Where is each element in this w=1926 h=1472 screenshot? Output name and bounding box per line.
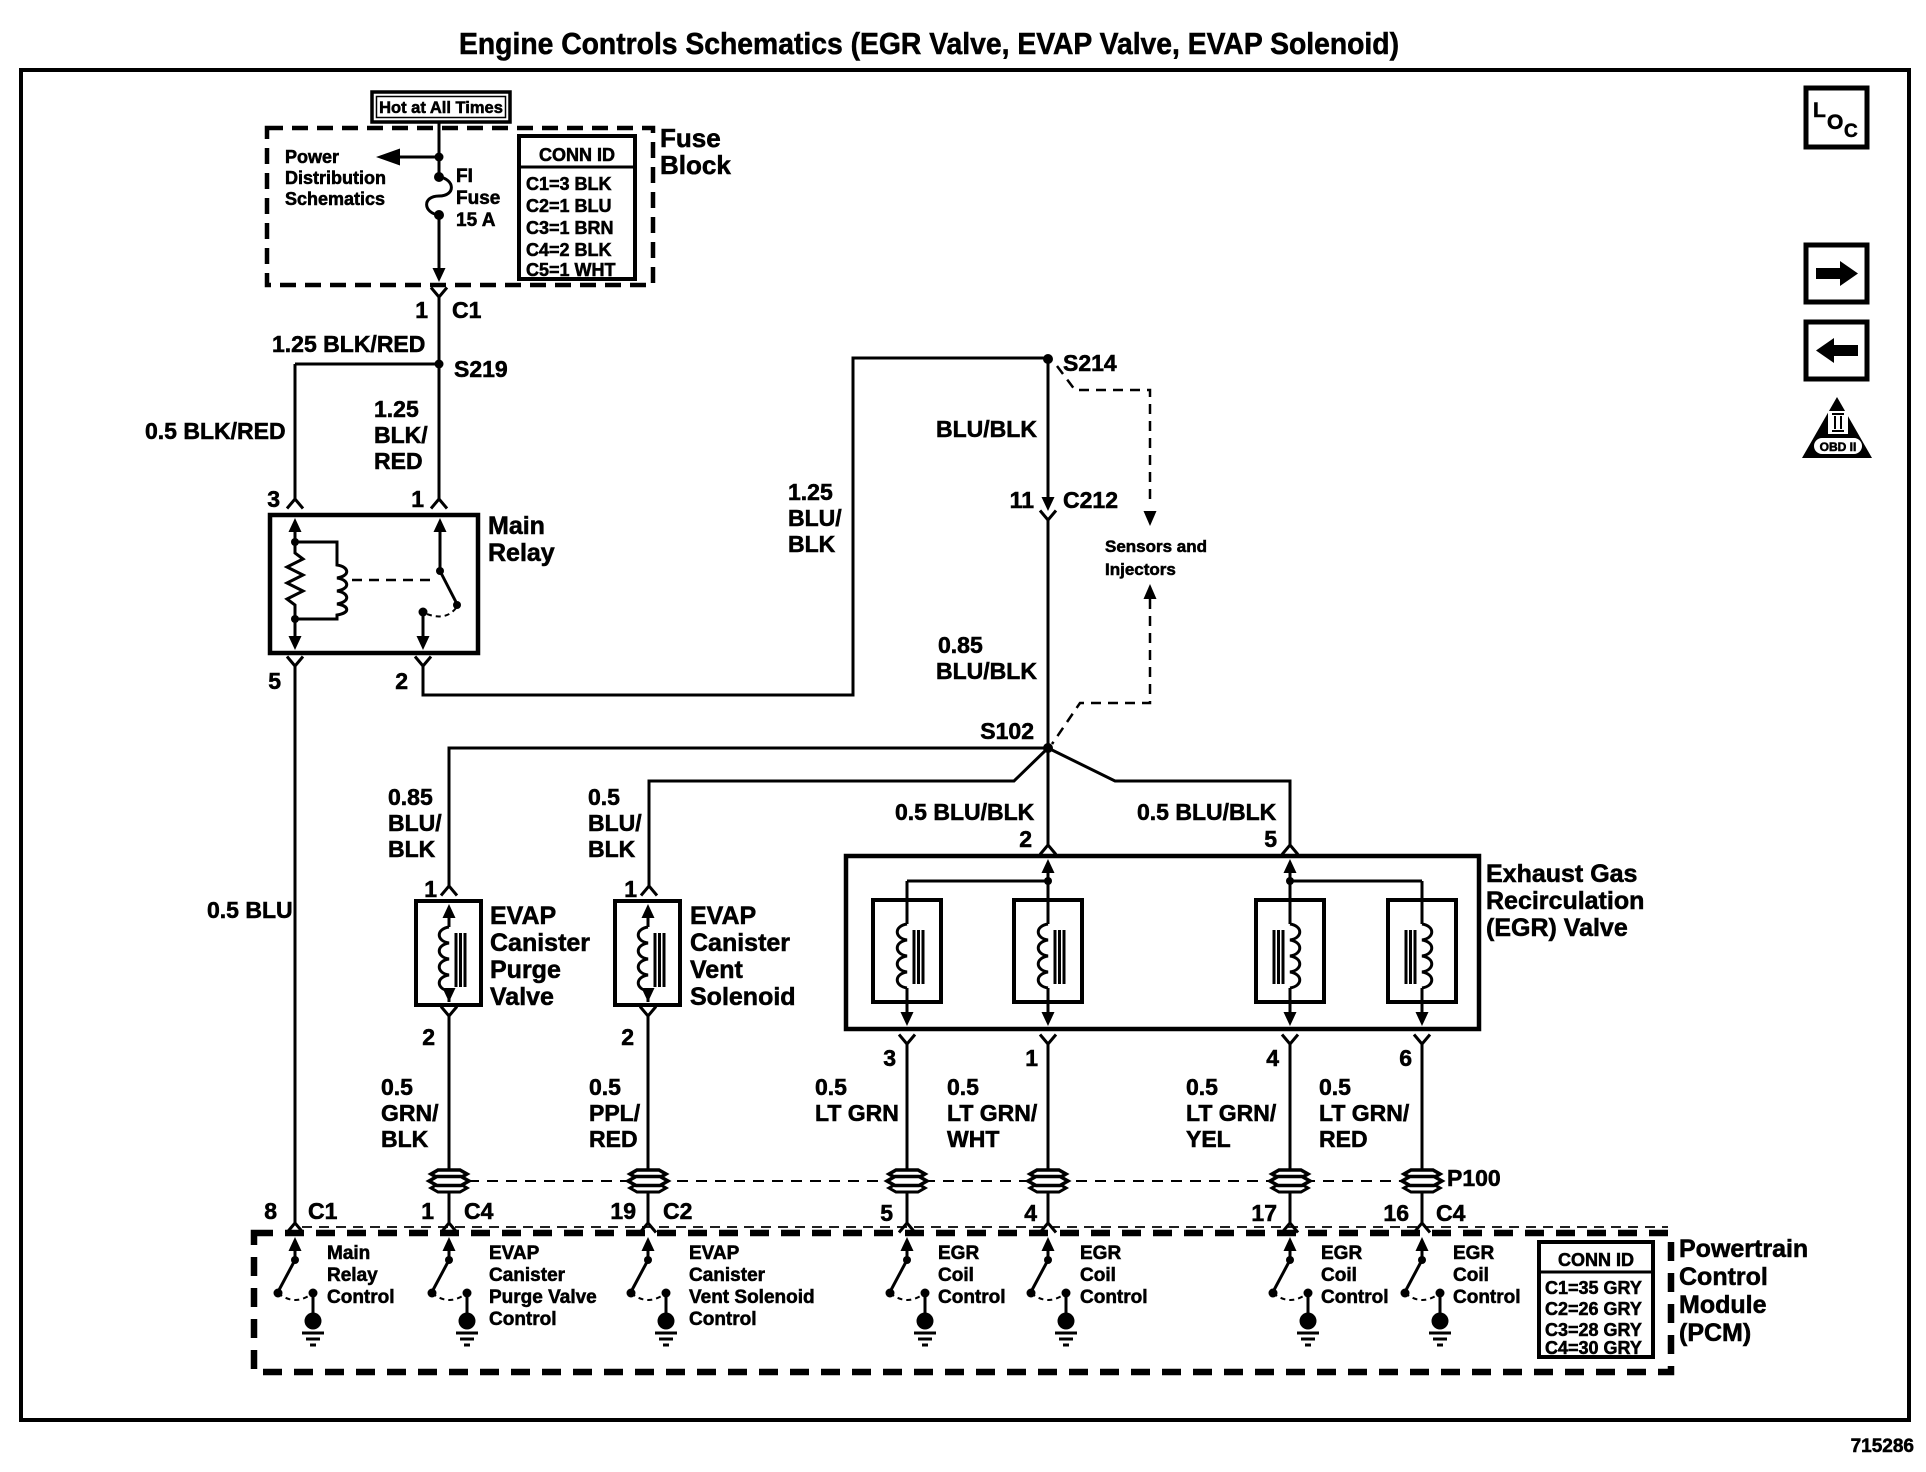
svg-text:Coil: Coil <box>1453 1265 1489 1286</box>
wire 1.25 BLK/RED from C1 to S219 <box>438 297 441 364</box>
label EVAP Canister Purge Valve <box>490 902 590 1011</box>
svg-text:(EGR) Valve: (EGR) Valve <box>1486 914 1628 942</box>
svg-text:0.5: 0.5 <box>1186 1074 1218 1100</box>
svg-text:Module: Module <box>1679 1291 1767 1319</box>
svg-text:C3=1 BRN: C3=1 BRN <box>526 218 614 238</box>
EGR valve box <box>846 856 1479 1029</box>
EGR coil D output wire <box>1416 1002 1429 1026</box>
PCM pin 17 connector <box>1251 1200 1298 1233</box>
svg-text:Fuse: Fuse <box>456 188 500 209</box>
relay resistor <box>287 542 303 619</box>
svg-text:C212: C212 <box>1063 487 1118 513</box>
PCM dashed box <box>254 1233 1671 1372</box>
relay switch common pin 1 <box>434 518 462 609</box>
svg-text:Engine Controls Schematics (EG: Engine Controls Schematics (EGR Valve, E… <box>459 26 1399 61</box>
svg-text:4: 4 <box>1266 1045 1279 1071</box>
svg-text:Valve: Valve <box>490 983 554 1011</box>
svg-text:Canister: Canister <box>689 1265 766 1286</box>
svg-text:0.85: 0.85 <box>388 784 433 810</box>
svg-text:1: 1 <box>421 1198 434 1224</box>
EGR coil control driver 3 <box>1269 1237 1320 1345</box>
purge valve pin 2 connector <box>422 1007 457 1051</box>
svg-text:Hot at All Times: Hot at All Times <box>379 99 503 117</box>
label 0.5 PPL/RED <box>589 1074 641 1152</box>
svg-text:1.25: 1.25 <box>374 396 419 422</box>
dashed wire S214 to sensors and injectors <box>1057 366 1157 526</box>
EVAP canister purge valve control driver <box>428 1237 479 1345</box>
splice S102 <box>980 718 1053 753</box>
relay coil <box>291 542 347 623</box>
junction in fuse block <box>435 153 444 162</box>
label 1.25 BLK/RED (stacked) <box>374 396 428 474</box>
connector C212 pin 11 <box>1010 487 1118 520</box>
svg-text:BLK: BLK <box>788 531 836 557</box>
PCM pin 4 connector <box>1024 1200 1056 1233</box>
svg-text:Relay: Relay <box>488 539 555 567</box>
PCM pin 16 C4 connector <box>1383 1200 1465 1233</box>
svg-text:Coil: Coil <box>1080 1265 1116 1286</box>
label 0.5 LT GRN <box>815 1074 899 1126</box>
EGR coil D <box>1388 900 1456 1002</box>
svg-text:EGR: EGR <box>1453 1243 1494 1264</box>
label Sensors and Injectors <box>1105 537 1207 579</box>
svg-text:BLU/: BLU/ <box>388 810 442 836</box>
svg-text:EGR: EGR <box>938 1243 979 1264</box>
EGR coil control driver 4 <box>1401 1237 1452 1345</box>
svg-text:715286: 715286 <box>1851 1436 1914 1457</box>
label 0.85 BLU/BLK <box>936 632 1037 684</box>
P100 dashed line <box>449 1180 1440 1182</box>
svg-text:Block: Block <box>660 150 731 180</box>
svg-text:Power: Power <box>285 147 339 167</box>
svg-text:0.5: 0.5 <box>815 1074 847 1100</box>
svg-text:C2: C2 <box>663 1198 692 1224</box>
EGR feed wire pin 2 <box>907 859 1055 900</box>
main relay box <box>270 515 478 653</box>
svg-text:Exhaust Gas: Exhaust Gas <box>1486 860 1637 888</box>
svg-text:GRN/: GRN/ <box>381 1100 439 1126</box>
EGR coil B output wire <box>1042 1002 1055 1026</box>
EGR feed wire pin 5 <box>1284 859 1423 900</box>
svg-text:0.5: 0.5 <box>947 1074 979 1100</box>
svg-text:L: L <box>1813 99 1826 122</box>
svg-text:Control: Control <box>1679 1263 1768 1291</box>
svg-text:11: 11 <box>1010 487 1035 513</box>
svg-text:Main: Main <box>488 512 545 540</box>
svg-text:5: 5 <box>268 668 281 694</box>
svg-text:Control: Control <box>1321 1287 1389 1308</box>
EVAP canister vent solenoid <box>615 901 680 1005</box>
wire BLU/BLK S214 to C212 <box>1047 359 1050 500</box>
label FI Fuse 15 A <box>456 166 500 231</box>
vent solenoid pin 2 connector <box>621 1007 656 1051</box>
inline connector P100 (PPL/RED wire) <box>628 1170 668 1192</box>
label EVAP Canister Vent Solenoid <box>690 902 796 1011</box>
EGR pin 1 connector <box>1025 1035 1056 1072</box>
svg-text:EGR: EGR <box>1080 1243 1121 1264</box>
svg-text:EVAP: EVAP <box>489 1243 540 1264</box>
label Power Distribution Schematics <box>285 147 386 209</box>
wire from fuse down to fuse block edge <box>433 215 446 282</box>
wire 0.5 BLU/BLK S102 to EVAP vent solenoid <box>641 748 1048 896</box>
svg-text:0.5 BLU/BLK: 0.5 BLU/BLK <box>1137 799 1277 825</box>
relay coil lower wire to pin 5 <box>289 619 302 650</box>
svg-text:LT GRN/: LT GRN/ <box>947 1100 1038 1126</box>
svg-text:Control: Control <box>1080 1287 1148 1308</box>
CONN ID table (PCM) <box>1539 1242 1653 1358</box>
svg-text:1: 1 <box>1025 1045 1038 1071</box>
svg-text:RED: RED <box>1319 1126 1368 1152</box>
svg-text:Powertrain: Powertrain <box>1679 1235 1808 1263</box>
label 0.5 GRN/BLK <box>381 1074 439 1152</box>
label Powertrain Control Module (PCM) <box>1679 1235 1808 1347</box>
fuse FI 15 A <box>427 157 452 220</box>
svg-text:Purge Valve: Purge Valve <box>489 1287 597 1308</box>
wire S219 branch left <box>295 363 439 366</box>
wire from Hot at All Times into fuse block <box>438 121 441 157</box>
svg-text:0.5: 0.5 <box>1319 1074 1351 1100</box>
label Main Relay Control <box>327 1243 395 1308</box>
OBD II icon <box>1802 397 1872 458</box>
svg-text:C1=3 BLK: C1=3 BLK <box>526 174 612 194</box>
wire 0.5 BLU from relay pin 5 to PCM pin 8 <box>294 666 297 1223</box>
svg-text:BLK/: BLK/ <box>374 422 428 448</box>
connector pin 5 <box>287 657 303 667</box>
svg-text:CONN ID: CONN ID <box>539 145 615 165</box>
svg-text:BLU/: BLU/ <box>788 505 842 531</box>
wire 0.5 BLU/BLK S102 to EGR pin 2 <box>1040 748 1056 855</box>
svg-text:RED: RED <box>589 1126 638 1152</box>
connector C1 pin 1 <box>415 288 481 324</box>
wire 1.25 BLU/BLK from relay pin 2 to S214 <box>423 358 1044 695</box>
svg-text:Recirculation: Recirculation <box>1486 887 1644 915</box>
svg-text:3: 3 <box>883 1045 896 1071</box>
svg-text:Sensors and: Sensors and <box>1105 537 1207 556</box>
svg-text:Canister: Canister <box>490 929 590 957</box>
EGR coil C output wire <box>1284 1002 1297 1026</box>
Hot at All Times box <box>372 92 510 122</box>
EGR coil C <box>1256 900 1324 1002</box>
svg-text:5: 5 <box>1264 826 1277 852</box>
wire 0.5 LT GRN EGR pin3 to PCM <box>906 1044 909 1223</box>
svg-text:Solenoid: Solenoid <box>690 983 796 1011</box>
inline connector P100 (LT GRN/WHT wire) <box>1028 1170 1068 1192</box>
label EVAP Canister Vent Solenoid Control <box>689 1243 815 1330</box>
svg-text:C5=1 WHT: C5=1 WHT <box>526 260 616 280</box>
svg-text:C2=1 BLU: C2=1 BLU <box>526 196 612 216</box>
svg-text:0.5: 0.5 <box>588 784 620 810</box>
EVAP canister purge valve <box>416 901 481 1005</box>
svg-text:0.5: 0.5 <box>381 1074 413 1100</box>
svg-text:C3=28 GRY: C3=28 GRY <box>1545 1320 1642 1340</box>
EGR coil A <box>873 900 941 1002</box>
svg-text:0.5 BLK/RED: 0.5 BLK/RED <box>145 418 286 444</box>
svg-text:PPL/: PPL/ <box>589 1100 641 1126</box>
svg-text:YEL: YEL <box>1186 1126 1231 1152</box>
PCM pin 8 C1 connector <box>264 1198 337 1233</box>
svg-text:C4=2 BLK: C4=2 BLK <box>526 240 612 260</box>
label EGR Coil Control 3 <box>1321 1243 1389 1308</box>
wire 0.5 LT GRN/RED EGR pin6 to PCM <box>1421 1044 1424 1223</box>
label Main Relay <box>488 512 555 567</box>
splice S214 <box>1043 350 1117 376</box>
wire 0.5 BLU/BLK S102 to EGR pin 5 <box>1048 748 1298 855</box>
svg-text:17: 17 <box>1251 1200 1277 1226</box>
svg-text:16: 16 <box>1383 1200 1409 1226</box>
label Exhaust Gas Recirculation (EGR) Valve <box>1486 860 1644 942</box>
svg-text:19: 19 <box>610 1198 636 1224</box>
label 0.5 LT GRN/YEL <box>1186 1074 1277 1152</box>
svg-text:S102: S102 <box>980 718 1034 744</box>
label EGR Coil Control 4 <box>1453 1243 1521 1308</box>
svg-text:Coil: Coil <box>1321 1265 1357 1286</box>
PCM pin 5 connector <box>880 1200 915 1233</box>
LOC icon <box>1806 88 1867 147</box>
svg-text:0.5 BLU: 0.5 BLU <box>207 897 293 923</box>
label Fuse Block <box>660 123 731 180</box>
label 0.5 LT GRN/WHT <box>947 1074 1038 1152</box>
inline connector P100 (GRN/BLK wire) <box>429 1170 469 1192</box>
svg-text:0.5: 0.5 <box>589 1074 621 1100</box>
arrow to Power Distribution Schematics <box>376 149 439 166</box>
relay switch throw dashed arc <box>427 608 456 616</box>
svg-text:2: 2 <box>395 668 408 694</box>
svg-text:4: 4 <box>1024 1200 1037 1226</box>
main relay control driver <box>274 1237 325 1345</box>
EGR coil B <box>1014 900 1082 1002</box>
label EVAP Canister Purge Valve Control <box>489 1243 597 1330</box>
svg-text:Vent: Vent <box>690 956 743 984</box>
svg-text:S214: S214 <box>1063 350 1117 376</box>
svg-text:OBD II: OBD II <box>1820 440 1857 454</box>
svg-text:1.25: 1.25 <box>788 479 833 505</box>
label 0.85 BLU/BLK (purge) <box>388 784 442 862</box>
svg-text:EGR: EGR <box>1321 1243 1362 1264</box>
inline connector P100 (LT GRN/YEL wire) <box>1270 1170 1310 1192</box>
svg-text:C4=30 GRY: C4=30 GRY <box>1545 1338 1642 1358</box>
inline connector P100 (LT GRN wire) <box>887 1170 927 1192</box>
svg-text:Purge: Purge <box>490 956 561 984</box>
svg-text:LT GRN/: LT GRN/ <box>1186 1100 1277 1126</box>
PCM pin 1 C4 connector <box>421 1198 493 1233</box>
svg-text:BLK: BLK <box>388 836 436 862</box>
wire 0.85 BLU/BLK C212 to S102 <box>1047 520 1050 748</box>
wire 0.5 BLK/RED down to relay pin 3 <box>287 364 303 509</box>
svg-text:2: 2 <box>621 1024 634 1050</box>
svg-text:2: 2 <box>422 1024 435 1050</box>
relay coil branch wire pin3 <box>289 518 302 546</box>
svg-text:WHT: WHT <box>947 1126 999 1152</box>
svg-text:Canister: Canister <box>489 1265 566 1286</box>
svg-text:0.85: 0.85 <box>938 632 983 658</box>
connector pin 2 <box>415 657 431 667</box>
svg-text:2: 2 <box>1019 826 1032 852</box>
EGR coil control driver 2 <box>1027 1237 1078 1345</box>
svg-text:BLU/BLK: BLU/BLK <box>936 658 1037 684</box>
svg-text:Coil: Coil <box>938 1265 974 1286</box>
svg-text:C2=26 GRY: C2=26 GRY <box>1545 1299 1642 1319</box>
right arrow icon <box>1806 245 1867 302</box>
svg-text:BLU/BLK: BLU/BLK <box>936 416 1037 442</box>
CONN ID table (fuse block) <box>519 136 635 280</box>
svg-text:Vent Solenoid: Vent Solenoid <box>689 1287 815 1308</box>
wire 1.25 BLK/RED down to relay pin 1 <box>431 364 447 509</box>
svg-text:FI: FI <box>456 166 473 187</box>
splice S219 <box>435 356 508 382</box>
EVAP canister vent solenoid control driver <box>627 1237 678 1345</box>
svg-text:1: 1 <box>411 486 424 512</box>
svg-text:Control: Control <box>689 1309 757 1330</box>
svg-text:0.5 BLU/BLK: 0.5 BLU/BLK <box>895 799 1035 825</box>
label EGR Coil Control 2 <box>1080 1243 1148 1308</box>
svg-text:8: 8 <box>264 1198 277 1224</box>
wire 0.5 PPL/RED vent solenoid to PCM <box>647 1016 650 1223</box>
svg-text:BLK: BLK <box>381 1126 429 1152</box>
svg-text:O: O <box>1827 111 1843 134</box>
svg-text:Injectors: Injectors <box>1105 560 1176 579</box>
svg-text:3: 3 <box>267 486 280 512</box>
svg-text:Relay: Relay <box>327 1265 378 1286</box>
fuse block dashed box <box>267 128 653 285</box>
svg-text:LT GRN: LT GRN <box>815 1100 899 1126</box>
svg-text:C4: C4 <box>1436 1200 1466 1226</box>
svg-text:Control: Control <box>1453 1287 1521 1308</box>
relay actuation dashed link <box>352 579 434 582</box>
svg-text:C1: C1 <box>452 297 482 323</box>
EGR coil A output wire <box>901 1002 914 1026</box>
svg-text:C1=35 GRY: C1=35 GRY <box>1545 1278 1642 1298</box>
svg-text:P100: P100 <box>1447 1165 1501 1191</box>
svg-text:EVAP: EVAP <box>490 902 556 930</box>
EGR pin 6 connector <box>1399 1035 1430 1072</box>
svg-text:1: 1 <box>415 297 428 323</box>
svg-text:CONN ID: CONN ID <box>1558 1250 1634 1270</box>
svg-text:Control: Control <box>327 1287 395 1308</box>
svg-text:Fuse: Fuse <box>660 123 721 153</box>
left arrow icon <box>1806 322 1867 379</box>
svg-text:RED: RED <box>374 448 423 474</box>
label 0.5 BLU/BLK (vent) <box>588 784 642 862</box>
wire 0.5 GRN/BLK purge valve to PCM <box>448 1016 451 1223</box>
dashed wire S102 to sensors and injectors <box>1052 584 1157 744</box>
PCM pin 19 C2 connector <box>610 1198 692 1233</box>
svg-text:BLU/: BLU/ <box>588 810 642 836</box>
label EGR Coil Control 1 <box>938 1243 1006 1308</box>
PCM pin row thin dashed line <box>302 1226 1668 1228</box>
svg-text:(PCM): (PCM) <box>1679 1319 1751 1347</box>
relay switch contact to pin 2 <box>417 608 430 651</box>
svg-text:BLK: BLK <box>588 836 636 862</box>
inline connector P100 (LT GRN/RED wire) <box>1402 1170 1442 1192</box>
svg-text:Canister: Canister <box>690 929 790 957</box>
svg-text:EVAP: EVAP <box>690 902 756 930</box>
label 0.5 LT GRN/RED <box>1319 1074 1410 1152</box>
EGR coil control driver 1 <box>886 1237 937 1345</box>
svg-text:C: C <box>1844 121 1858 142</box>
svg-text:1: 1 <box>624 876 637 902</box>
EGR pin 3 connector <box>883 1035 915 1072</box>
svg-text:S219: S219 <box>454 356 508 382</box>
svg-text:C1: C1 <box>308 1198 338 1224</box>
svg-text:15 A: 15 A <box>456 210 496 231</box>
svg-text:Control: Control <box>938 1287 1006 1308</box>
svg-text:LT GRN/: LT GRN/ <box>1319 1100 1410 1126</box>
svg-text:Distribution: Distribution <box>285 168 386 188</box>
svg-text:EVAP: EVAP <box>689 1243 740 1264</box>
svg-text:Main: Main <box>327 1243 370 1264</box>
svg-text:1.25 BLK/RED: 1.25 BLK/RED <box>272 331 425 357</box>
svg-text:C4: C4 <box>464 1198 494 1224</box>
wire 0.5 LT GRN/YEL EGR pin4 to PCM <box>1289 1044 1292 1223</box>
svg-text:5: 5 <box>880 1200 893 1226</box>
wire 0.85 BLU/BLK S102 to EVAP purge valve <box>441 748 1048 896</box>
svg-text:1: 1 <box>424 876 437 902</box>
svg-text:Schematics: Schematics <box>285 189 385 209</box>
wire 0.5 LT GRN/WHT EGR pin1 to PCM <box>1047 1044 1050 1223</box>
EGR pin 4 connector <box>1266 1035 1298 1072</box>
label 1.25 BLU/BLK <box>788 479 842 557</box>
svg-text:Control: Control <box>489 1309 557 1330</box>
svg-text:6: 6 <box>1399 1045 1412 1071</box>
